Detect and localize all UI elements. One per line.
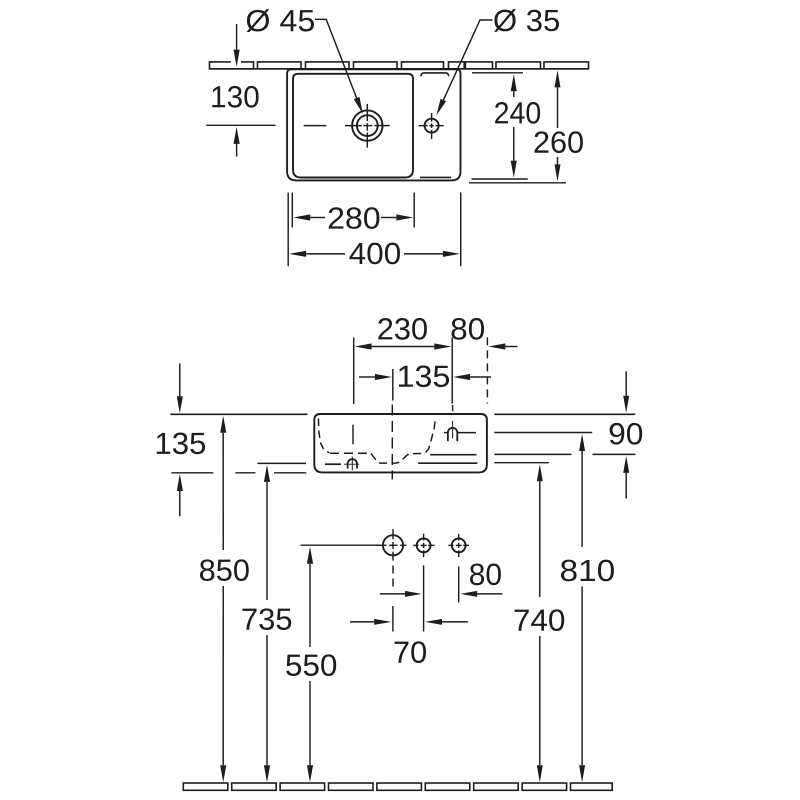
washbasin front outline <box>314 414 487 472</box>
leader line Ø45 <box>315 19 358 102</box>
dim text 240 <box>495 102 540 124</box>
tick for 70 left <box>392 606 394 632</box>
dim 135 left top arrow <box>177 396 183 413</box>
leader Ø45 arrowhead <box>354 97 363 114</box>
dim text 280 <box>329 207 380 229</box>
tap deck lower edge <box>418 462 477 464</box>
wall line (top view) <box>209 68 588 70</box>
middle hole crosshair vertical <box>423 534 425 541</box>
gap for 130 arrow <box>231 60 241 67</box>
dim 240 up arrow <box>511 74 517 91</box>
dim 230 right arrow <box>434 343 451 349</box>
dim text 550 <box>286 654 336 676</box>
dim text 80 (mid) <box>470 564 501 586</box>
dim text 850 <box>200 559 249 581</box>
right hole horizontal centerline dashes <box>444 432 448 434</box>
Ø35 centerline horizontal <box>419 125 428 127</box>
dim 550 down arrow <box>307 765 313 782</box>
dim 240 top extension <box>472 72 523 74</box>
tap hole Ø45 inner circle <box>357 115 378 136</box>
dim text 400 <box>349 243 400 265</box>
dim 260 bottom extension <box>469 182 566 184</box>
left interior ledge line <box>325 463 341 465</box>
basin interior bottom (hidden) <box>330 452 371 454</box>
extension line basin right edge (dashed) <box>486 337 488 403</box>
Ø45 centerline horizontal <box>345 125 362 127</box>
right hole centerline above rim <box>452 405 454 411</box>
dim text 810 <box>561 560 614 582</box>
middle hole centerline below <box>423 565 425 631</box>
dim 550 up arrow <box>307 547 313 564</box>
floor tile band <box>183 783 228 790</box>
dim 810 down arrow <box>579 765 585 782</box>
deck inner top edge <box>421 73 449 76</box>
dim 90 top arrow <box>623 396 629 413</box>
dim 260 down arrow <box>555 164 561 181</box>
left hole centerline <box>352 425 354 445</box>
dim 400 left extension <box>287 193 289 267</box>
right hole centerline below <box>458 567 460 603</box>
dim 230 left arrow <box>355 343 372 349</box>
dim 90 bottom arrow <box>623 456 629 473</box>
dim 80 mid right arrow <box>460 591 477 597</box>
label Ø45 <box>246 9 313 32</box>
dim 850 up arrow <box>220 416 226 433</box>
dim text 260 <box>535 131 583 153</box>
dim 280 right arrow <box>396 214 413 220</box>
dim 740 up arrow <box>537 464 543 481</box>
dim 130 bottom arrow <box>234 127 240 144</box>
right hole crosshair horizontal <box>448 544 453 546</box>
dim 400 right arrow <box>443 251 460 257</box>
dim 280 left arrow <box>293 214 310 220</box>
Ø45 centerline vertical <box>366 104 368 121</box>
reference line to supply holes (550) <box>301 544 379 546</box>
hole Ø35 circle <box>425 119 439 133</box>
tap hole Ø45 outer circle <box>352 110 382 140</box>
basin ledge reference line (735) <box>258 462 307 464</box>
drain recess (hidden) <box>371 453 425 463</box>
dim 130 extension line <box>206 124 275 126</box>
dim 850 down arrow <box>220 765 226 782</box>
right hole crosshair vertical <box>458 534 460 541</box>
dim text 735 <box>242 608 291 630</box>
inner basin (plan) <box>293 74 413 178</box>
right tap hole symbol <box>448 428 457 441</box>
dim 735 up arrow <box>264 465 270 482</box>
reference line (90 bottom) <box>494 453 571 455</box>
dim 740 down arrow <box>537 765 543 782</box>
large hole centerline below <box>392 566 394 589</box>
dim 810 up arrow <box>579 434 585 451</box>
dim text 230 <box>378 318 427 340</box>
supply hole right <box>452 539 466 553</box>
dim 240 bottom extension <box>472 178 528 180</box>
washbasin outer rim (plan) <box>287 69 460 180</box>
leader line Ø35 <box>442 20 493 103</box>
dim 280 right extension <box>413 193 415 228</box>
dim 400 right extension <box>460 193 462 267</box>
dim 735 down arrow <box>264 765 270 782</box>
Ø35 centerline vertical <box>431 113 433 122</box>
dim 80 mid left arrow <box>405 591 422 597</box>
leader Ø35 arrowhead <box>436 99 446 116</box>
dim 280 left extension <box>291 193 293 228</box>
basin interior left wall (hidden) <box>318 419 329 453</box>
lower front edge reference line <box>171 472 213 474</box>
basin centerline dash <box>304 125 327 127</box>
dim 135 left bottom arrow <box>177 474 183 491</box>
extension line left hole axis <box>353 337 355 404</box>
dim text 70 <box>395 641 426 663</box>
large hole crosshair horizontal <box>376 544 386 546</box>
tap deck reference line (810) <box>494 432 592 434</box>
dim 135 right arrow <box>453 374 470 380</box>
wall top reference line <box>170 413 307 415</box>
dim 130 top arrow <box>234 50 240 67</box>
extension line right hole axis <box>451 337 453 403</box>
dim 70 right arrow <box>425 619 442 625</box>
tap deck front edge <box>430 454 476 456</box>
dim 80 top arrow <box>488 343 505 349</box>
dim 260 up arrow <box>555 70 561 87</box>
dim text 740 <box>515 609 565 631</box>
deck hidden edge dash <box>420 176 451 178</box>
front view vertical centerline <box>391 405 393 480</box>
dim 70 left arrow <box>374 619 391 625</box>
wall tile segments <box>210 62 254 69</box>
dim text 130 <box>212 86 258 108</box>
dim 400 left arrow <box>289 251 306 257</box>
left tap hole symbol <box>348 459 357 468</box>
large hole crosshair vertical <box>392 529 394 539</box>
label Ø35 <box>494 9 559 32</box>
dim text 90 <box>610 423 643 445</box>
dim text 80 (top) <box>452 318 484 340</box>
middle hole crosshair horizontal <box>413 544 418 546</box>
water supply hole large <box>383 535 403 555</box>
dim 240 down arrow <box>511 161 517 178</box>
dim text 135 (mid) <box>399 365 449 387</box>
reference line (740) <box>494 462 549 464</box>
tick centre hole axis <box>392 369 394 401</box>
dim text 135 (left) <box>157 433 205 455</box>
basin interior right wall (hidden) <box>426 419 436 453</box>
supply hole middle <box>417 539 431 553</box>
dim 135 left arrow <box>375 374 392 380</box>
